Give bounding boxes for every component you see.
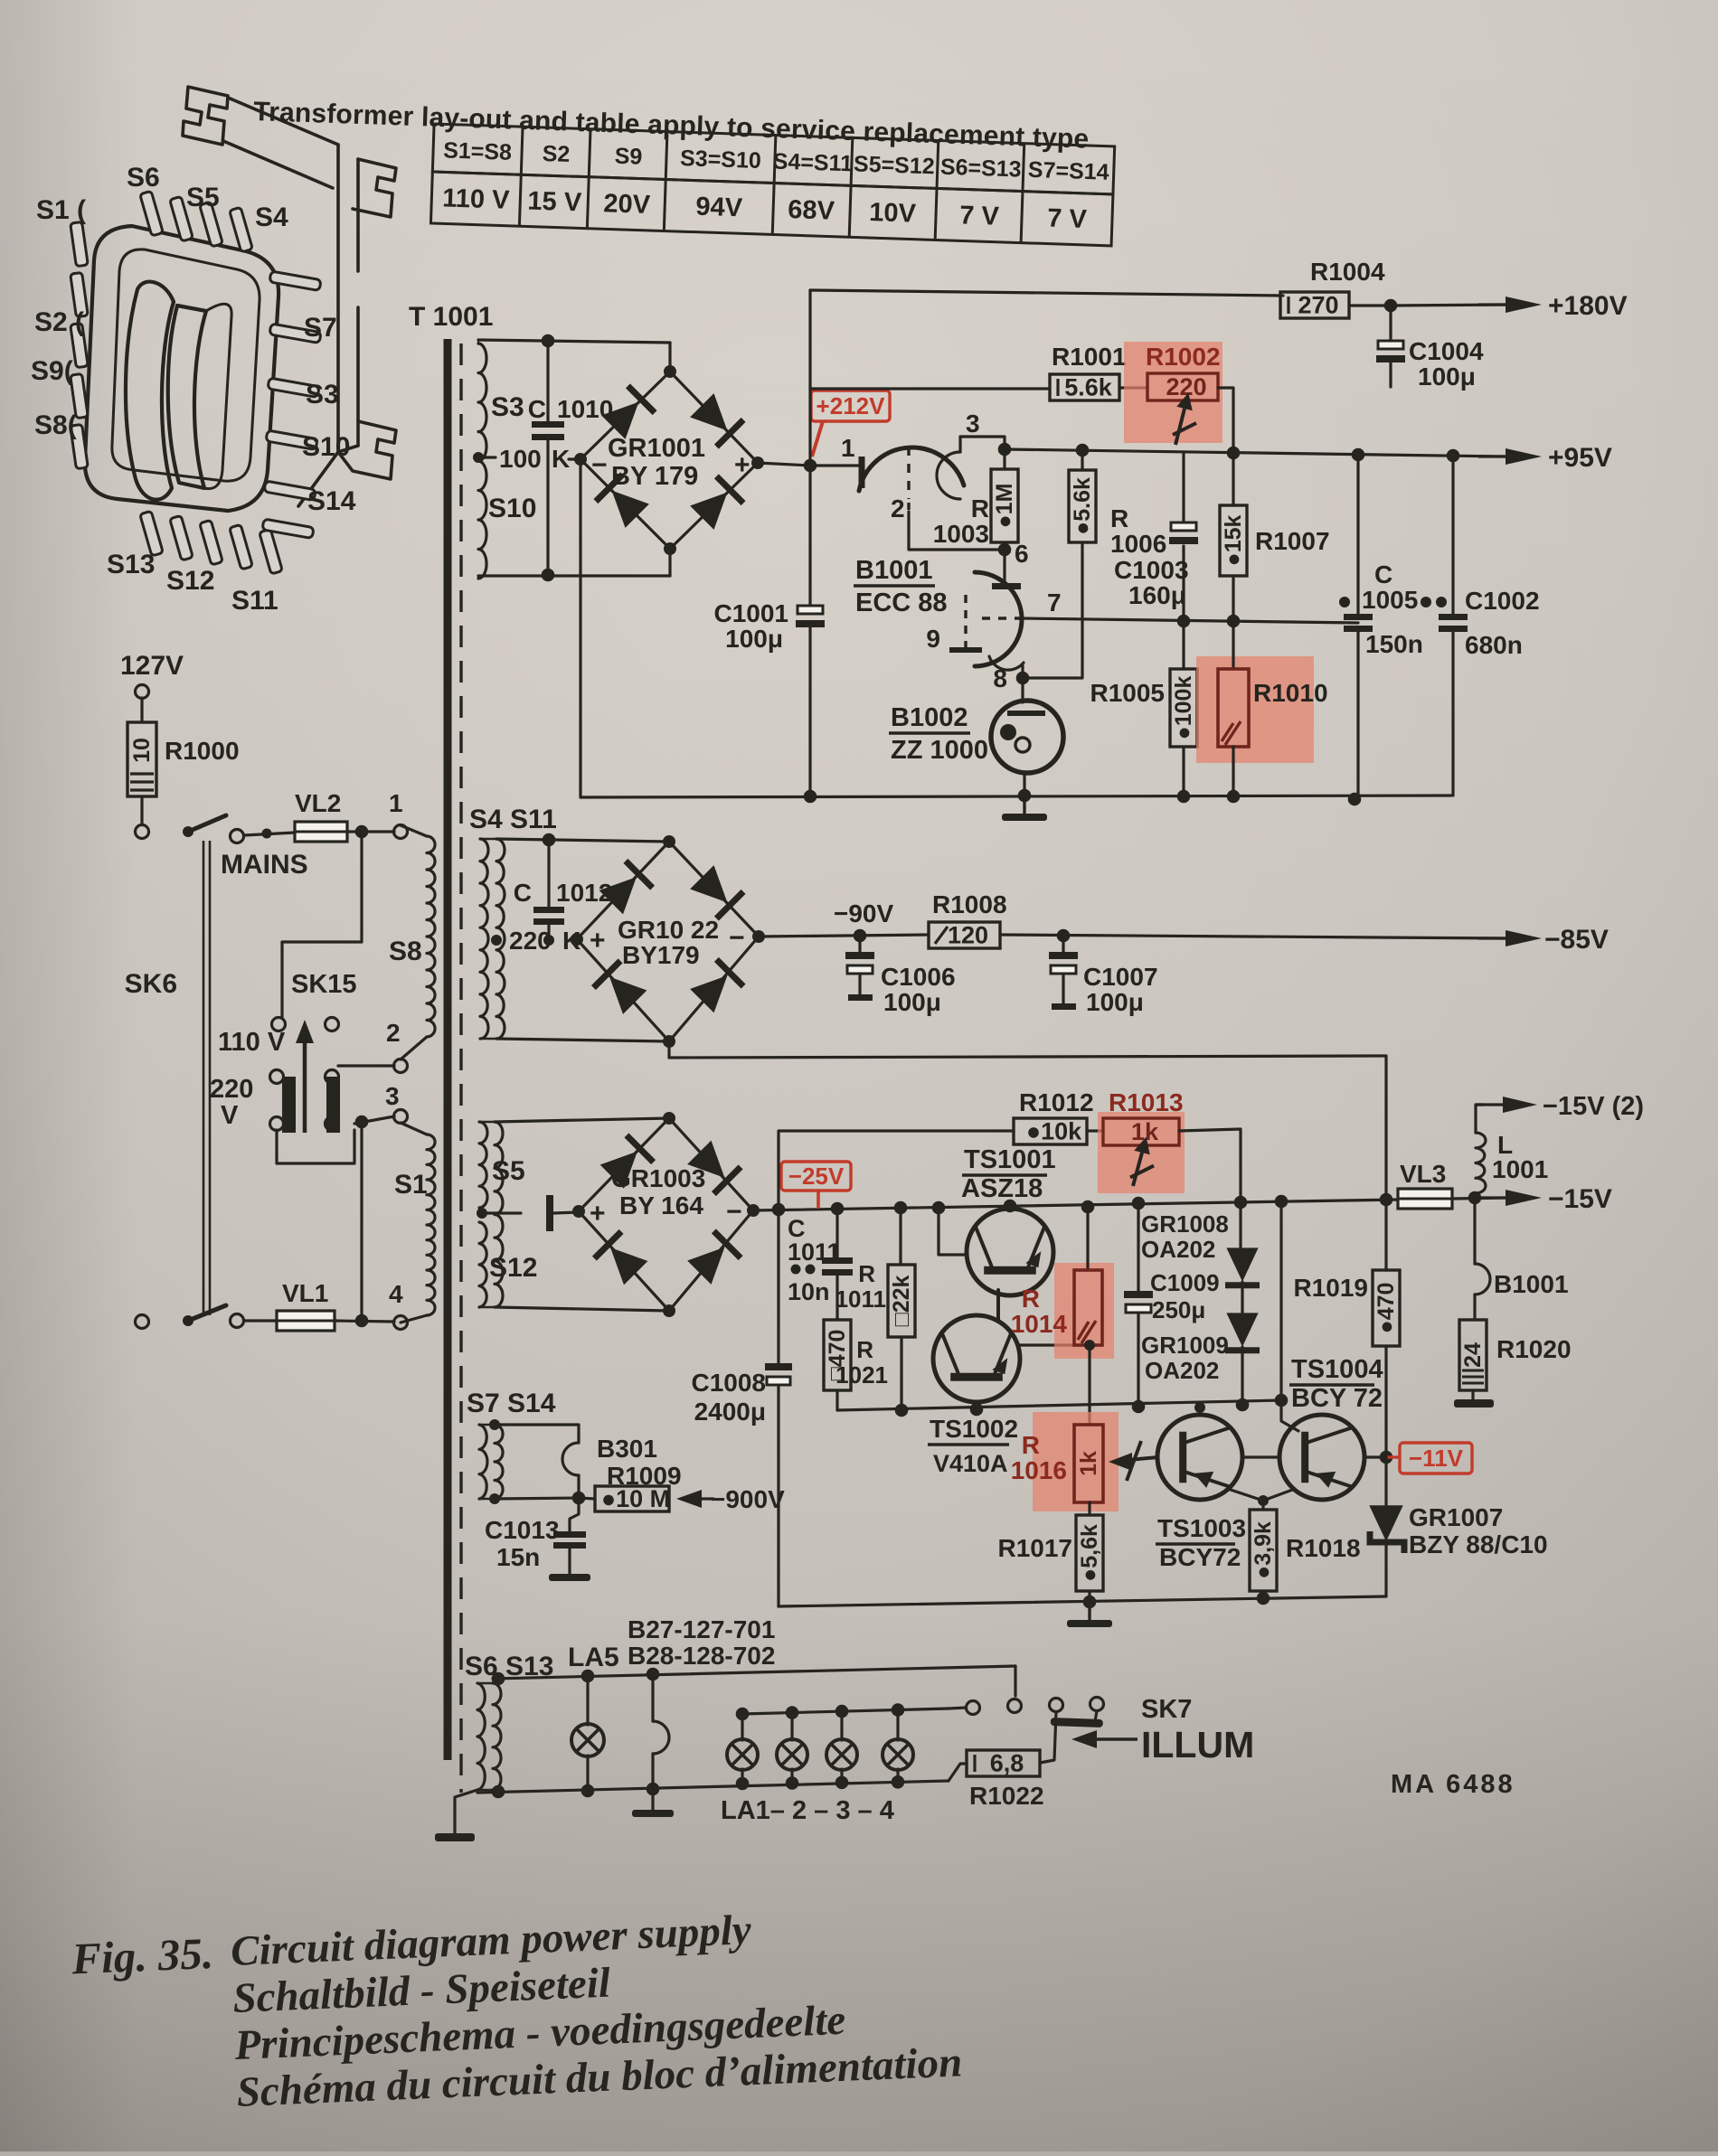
svg-text:7 V: 7 V (959, 201, 1000, 231)
wire TS1003 top (1198, 1408, 1201, 1415)
transformer pins (71, 191, 321, 574)
svg-text:94V: 94V (695, 193, 743, 223)
SK6 gang link (203, 841, 205, 1315)
svg-text:S7: S7 (304, 313, 337, 343)
svg-text:680n: 680n (1465, 631, 1523, 659)
junction pin 8 (1016, 672, 1030, 685)
lamp rail top (493, 1666, 1015, 1679)
ground below B1002 (1023, 796, 1025, 814)
junction R1014 top (1081, 1200, 1095, 1214)
arrow -15V(2) (1476, 1103, 1503, 1106)
capacitor C1010 (546, 341, 549, 421)
zener GR1007 BZY88/C10 (1384, 1457, 1387, 1508)
wire R1001-R1002 (1119, 386, 1147, 389)
wire cathode pin 3 (960, 437, 1005, 452)
svg-text:GR1003: GR1003 (611, 1164, 705, 1192)
transformer core line (444, 339, 452, 1760)
wire R1014 to R1016 (1088, 1345, 1090, 1425)
arrow +180V (1478, 303, 1506, 306)
svg-text:S3=S10: S3=S10 (680, 146, 762, 174)
junction x861 rail (772, 1203, 786, 1217)
terminal mains top (136, 825, 149, 839)
svg-text:R1017: R1017 (997, 1534, 1072, 1562)
connector B27 bump (651, 1674, 654, 1721)
red pad R1010 (1196, 656, 1314, 763)
wire top +180V rail (810, 290, 1283, 296)
transistor TS1004 (1279, 1415, 1364, 1500)
valve B1001 triode a grid (907, 447, 910, 499)
resistor R1007 (1232, 453, 1234, 505)
arrow -85V (1478, 937, 1506, 939)
wire R1004 to junction (1349, 304, 1391, 306)
ground lamp winding (455, 1790, 477, 1833)
wire top rail of winding block (478, 340, 670, 343)
winding S11 (496, 839, 505, 1039)
valve B1001 triode b cathode (989, 656, 1024, 670)
junction C1009 bottom (1132, 1400, 1146, 1414)
svg-text:S3: S3 (491, 392, 524, 422)
winding tap to connector (477, 1208, 487, 1219)
wire pin 7 row (1022, 618, 1358, 623)
capacitor C1004 (1389, 306, 1392, 341)
svg-text:OA202: OA202 (1145, 1357, 1219, 1384)
svg-text:ZZ 1000: ZZ 1000 (891, 736, 988, 765)
SK7 blade (1051, 1718, 1103, 1728)
connector B301 (562, 1443, 579, 1475)
wire cathode to pin 8 (1021, 665, 1024, 702)
red label -25V (781, 1162, 851, 1191)
svg-text:BZY 88/C10: BZY 88/C10 (1409, 1530, 1548, 1558)
svg-text:R1007: R1007 (1255, 527, 1330, 555)
junction TS1004 mid rail (1275, 1394, 1288, 1408)
wire R1003 to pin6 (1003, 542, 1005, 583)
svg-text:1021: 1021 (835, 1361, 888, 1389)
wire VL1 to pin4 (335, 1321, 394, 1322)
wire bridge output to +212V node (758, 463, 810, 466)
svg-text:S10: S10 (488, 494, 536, 523)
wire to R1009 (579, 1498, 595, 1499)
red pad R1002 (1124, 342, 1222, 443)
svg-text:+: + (590, 926, 606, 956)
svg-text:R1001: R1001 (1052, 343, 1127, 371)
wire S5S12 top to bridge (495, 1118, 669, 1122)
SK7 ILLUM arrow (1071, 1730, 1097, 1748)
svg-text:−15V: −15V (1548, 1184, 1612, 1214)
svg-text:R1008: R1008 (932, 890, 1007, 918)
bottom rail of regulator (779, 1596, 1386, 1606)
diode GR1008 (1239, 1202, 1241, 1247)
junction LA2 top (786, 1706, 799, 1719)
svg-text:R1013: R1013 (1109, 1088, 1184, 1116)
winding S1 (401, 1123, 427, 1134)
terminal mains bottom (136, 1315, 149, 1329)
wire S7S14 top to B301 (495, 1425, 579, 1443)
capacitor C1001 (808, 466, 811, 611)
svg-text:R: R (1022, 1431, 1040, 1459)
svg-text:VL2: VL2 (295, 789, 341, 817)
svg-text:S13: S13 (107, 550, 155, 579)
wire GR1001 minus corner down (579, 459, 581, 797)
wire L1001 top (1476, 1105, 1483, 1133)
choke L1001 (1476, 1133, 1486, 1193)
junction pin 6 (998, 543, 1012, 557)
svg-text:1014: 1014 (1011, 1310, 1068, 1338)
wire selector to pin3 (354, 1116, 394, 1124)
svg-text:S6=S13: S6=S13 (940, 155, 1023, 183)
svg-text:TS1001: TS1001 (964, 1145, 1056, 1174)
svg-text:1011: 1011 (788, 1238, 841, 1266)
svg-text:ILLUM: ILLUM (1141, 1724, 1254, 1765)
valve B1001 triode a anode (859, 457, 865, 488)
mid rail TS1002 emitter (837, 1400, 1281, 1410)
svg-text:TS1002: TS1002 (930, 1415, 1018, 1443)
wire TS1004 to -11V node (1364, 1455, 1386, 1458)
capacitor C1007 (1062, 936, 1064, 956)
svg-text:−85V: −85V (1544, 925, 1609, 955)
terminal pin 1 (394, 825, 408, 839)
winding tap 220K (491, 935, 502, 946)
winding S8 (401, 825, 427, 836)
svg-text:●5.6k: ●5.6k (1070, 477, 1095, 535)
winding tap 100K (473, 452, 484, 463)
svg-text:1001: 1001 (1492, 1155, 1548, 1183)
arrow -15V (1478, 1196, 1506, 1199)
svg-text:K: K (552, 445, 570, 473)
svg-text:●3,9k: ●3,9k (1251, 1521, 1276, 1579)
wire S4S11 top rail (496, 839, 669, 842)
R1020 ground (1471, 1390, 1474, 1399)
junction S6S13 bottom (492, 1785, 505, 1799)
svg-text:ECC 88: ECC 88 (855, 588, 948, 617)
svg-text:+95V: +95V (1548, 443, 1612, 473)
svg-text:R1012: R1012 (1019, 1088, 1094, 1116)
svg-text:BY179: BY179 (622, 941, 700, 969)
svg-text:S10: S10 (302, 432, 350, 462)
junction C1007 top (1057, 929, 1071, 943)
ground lamp rail (651, 1789, 654, 1810)
capacitor C1005 (1356, 455, 1359, 614)
wire pin1 node to SK15 (282, 832, 362, 1018)
terminal pin 4 (394, 1316, 408, 1330)
junction C1012 bottom (543, 935, 554, 946)
svg-text:V410A: V410A (933, 1450, 1008, 1477)
svg-text:S2 (: S2 ( (34, 307, 84, 337)
transformer lamination plate (85, 226, 278, 511)
dot marker C1005 (1339, 597, 1350, 607)
svg-text:S12: S12 (489, 1253, 537, 1283)
svg-text:C: C (528, 395, 546, 423)
svg-text:B1002: B1002 (891, 703, 968, 732)
winding S6 (477, 1683, 485, 1790)
svg-text:S1: S1 (394, 1170, 428, 1200)
svg-text:10: 10 (129, 738, 155, 763)
junction pin1 node (355, 825, 369, 839)
wire R1002 right lead down (1218, 388, 1233, 453)
svg-text:C1009: C1009 (1150, 1269, 1220, 1296)
lamp LA4 (883, 1739, 913, 1770)
svg-text:SK15: SK15 (291, 970, 357, 999)
fuse VL1 (244, 1319, 277, 1322)
svg-text:C1001: C1001 (713, 599, 788, 627)
dot marker C1011 a (791, 1265, 801, 1275)
svg-text:BCY72: BCY72 (1159, 1543, 1241, 1571)
wire rail to R1022 (949, 1764, 967, 1781)
svg-text:S9: S9 (614, 144, 643, 170)
feedback rail R1012 R1013 (779, 1131, 1014, 1210)
svg-text:110 V: 110 V (218, 1028, 286, 1057)
junction LA3 top (835, 1705, 849, 1718)
wire R1022 to SK7 (1040, 1712, 1056, 1763)
svg-text:−: − (591, 450, 608, 480)
winding bottom rail (477, 576, 479, 579)
svg-text:6,8: 6,8 (990, 1750, 1024, 1777)
wire S7S14 bottom to node (495, 1498, 579, 1499)
terminal 127V (136, 685, 149, 699)
winding S13 (493, 1683, 501, 1790)
svg-text:−25V: −25V (788, 1163, 845, 1190)
resistor R1019 (1384, 1200, 1387, 1270)
svg-text:−15V (2): −15V (2) (1543, 1092, 1644, 1121)
wire bridge bottom stub (668, 549, 671, 576)
svg-text:1k: 1k (1076, 1451, 1101, 1476)
junction R1014 bottom (1084, 1340, 1095, 1351)
junction R1011 bottom (895, 1404, 909, 1417)
wire SK15 top to pin2 (338, 1064, 394, 1067)
svg-text:1: 1 (389, 789, 403, 817)
winding S3/S10 (478, 344, 486, 579)
svg-text:−90V: −90V (834, 899, 893, 927)
svg-text:24: 24 (1460, 1342, 1486, 1368)
svg-text:100μ: 100μ (883, 988, 941, 1016)
wire R1012-R1013 (1087, 1129, 1103, 1132)
svg-text:●10 M: ●10 M (601, 1485, 670, 1512)
svg-text:BY 179: BY 179 (611, 462, 698, 491)
svg-text:68V: 68V (788, 195, 835, 226)
svg-text:R1019: R1019 (1293, 1274, 1368, 1302)
winding S5 (479, 1122, 487, 1208)
capacitor C1013 (570, 1498, 579, 1531)
svg-text:B28-128-702: B28-128-702 (628, 1642, 775, 1670)
svg-text:R: R (856, 1336, 873, 1363)
svg-text:20V: 20V (603, 189, 651, 220)
wire -25V rail (753, 1200, 1398, 1210)
bottom rail of valve block (581, 796, 1451, 797)
svg-text:1006: 1006 (1110, 530, 1166, 558)
rheostat R1014 (1086, 1207, 1089, 1270)
junction LA1 top (736, 1708, 750, 1721)
junction R1009 node (572, 1492, 586, 1505)
wire to +180V arrow (1391, 305, 1506, 306)
wire S4S11 bottom rail (496, 1039, 669, 1041)
svg-text:10n: 10n (788, 1278, 830, 1305)
svg-text:C1006: C1006 (881, 963, 956, 991)
svg-text:□22k: □22k (889, 1275, 914, 1326)
capacitor C1011 and R1021 chain (835, 1209, 838, 1257)
capacitor C1003 (1171, 523, 1196, 531)
dot marker C1002 b (1436, 597, 1447, 607)
svg-text:100μ: 100μ (725, 625, 783, 653)
junction +212V node (804, 459, 817, 473)
capacitor C1012 (547, 840, 550, 907)
valve B1001 triode b envelope (975, 572, 1022, 666)
junction LA2 bottom (786, 1776, 799, 1790)
junction C1006 top (854, 929, 867, 943)
svg-text:S5: S5 (186, 183, 220, 212)
svg-text:BCY 72: BCY 72 (1291, 1384, 1383, 1413)
svg-text:+180V: +180V (1548, 291, 1628, 321)
table: service replacement voltages (430, 124, 1114, 246)
svg-text:S14: S14 (307, 486, 356, 516)
svg-text:100: 100 (499, 445, 542, 473)
junction TS1003 top (1194, 1402, 1205, 1413)
svg-text:S3: S3 (306, 380, 339, 410)
svg-text:1011: 1011 (835, 1285, 886, 1313)
svg-text:C1002: C1002 (1465, 587, 1540, 615)
red pad R1013 (1098, 1112, 1185, 1193)
terminal pin 3 (394, 1110, 408, 1124)
winding S5S12 coil right (495, 1122, 503, 1307)
selector arrow (303, 1031, 307, 1133)
capacitor C1006 (858, 936, 861, 956)
svg-text:MAINS: MAINS (221, 850, 308, 880)
svg-text:+212V: +212V (817, 392, 886, 419)
svg-text:GR10 22: GR10 22 (618, 916, 719, 944)
svg-text:VL3: VL3 (1400, 1160, 1446, 1188)
svg-text:C1013: C1013 (485, 1516, 560, 1544)
wire stub to bridge top (668, 343, 671, 372)
junction C1010 bottom (542, 569, 555, 582)
svg-text:110 V: 110 V (442, 184, 511, 214)
svg-text:ASZ18: ASZ18 (961, 1174, 1043, 1203)
terminal pin 2 (394, 1059, 408, 1073)
svg-text:C1008: C1008 (691, 1369, 766, 1397)
rheostat R1010 (1232, 621, 1234, 669)
svg-text:1003: 1003 (933, 520, 989, 548)
winding S4 (480, 839, 488, 1039)
junction C1005 bottom rail (1348, 793, 1362, 806)
junction R1007 bottom (1227, 615, 1241, 628)
svg-text:S8: S8 (389, 937, 422, 966)
svg-text:R1004: R1004 (1310, 258, 1385, 286)
svg-text:S12: S12 (166, 566, 214, 596)
junction VL1 pin3 (355, 1314, 369, 1328)
svg-text:15n: 15n (496, 1543, 540, 1571)
svg-text:C1007: C1007 (1083, 963, 1158, 991)
junction GR1009 bottom (1236, 1398, 1250, 1412)
arrow -900V (676, 1490, 702, 1508)
svg-text:1005: 1005 (1362, 586, 1418, 614)
svg-text:3: 3 (385, 1082, 400, 1110)
junction LA4 top (892, 1703, 905, 1717)
svg-text:S7 S14: S7 S14 (467, 1389, 556, 1418)
svg-text:6: 6 (1015, 540, 1029, 568)
resistor R1005 (1182, 621, 1185, 669)
svg-text:S1 (: S1 ( (36, 195, 86, 225)
lamp LA3 (826, 1739, 857, 1770)
svg-text:S8(: S8( (34, 410, 77, 440)
junction B1002 bottom (1018, 789, 1032, 803)
resistor R1018 (1250, 1510, 1277, 1591)
svg-text:V: V (221, 1101, 239, 1130)
wire VL2 to pin1 (347, 830, 394, 833)
svg-text:R1022: R1022 (969, 1782, 1044, 1810)
wire R1013 to rail (1179, 1129, 1241, 1202)
svg-text:R: R (1022, 1285, 1040, 1313)
svg-text:Fig. 35.: Fig. 35. (70, 1928, 214, 1984)
svg-text:S2: S2 (542, 141, 571, 167)
wire anode lead pin1 (810, 464, 860, 466)
wire subrail to SK7 (949, 1708, 966, 1709)
svg-text:●10k: ●10k (1026, 1118, 1082, 1145)
lamp LA5 (586, 1676, 589, 1725)
wire to VL2 (244, 833, 295, 835)
junction R1019 top (1380, 1193, 1393, 1207)
wire wiper down to C1003 (1182, 453, 1185, 528)
wire B1002 to bottom rail (1023, 773, 1025, 796)
svg-text:VL1: VL1 (282, 1279, 328, 1307)
svg-text:−11V: −11V (1409, 1445, 1464, 1472)
svg-text:3: 3 (966, 410, 980, 438)
svg-text:1: 1 (841, 434, 855, 462)
svg-text:8: 8 (993, 664, 1007, 692)
svg-text:−900V: −900V (711, 1485, 785, 1513)
bridge rectifier GR1001 BY179 (581, 372, 758, 549)
junction C1003 bottom (1177, 615, 1191, 628)
svg-text:SK7: SK7 (1141, 1695, 1192, 1724)
voltage selector 110/220 (282, 1077, 296, 1133)
svg-text:S9(: S9( (31, 356, 73, 386)
valve B1001 triode a envelope (859, 447, 964, 491)
transformer core dashed line (459, 344, 462, 1793)
junction GR1008 top (1234, 1196, 1248, 1210)
svg-text:C1003: C1003 (1114, 556, 1189, 584)
diode GR1009 (1241, 1282, 1243, 1313)
svg-text:R: R (1110, 504, 1128, 532)
junction R1011 top (894, 1201, 908, 1215)
svg-text:S5=S12: S5=S12 (854, 151, 936, 179)
svg-text:127V: 127V (120, 651, 184, 681)
switch SK7 contacts (967, 1701, 980, 1715)
svg-text:TS1004: TS1004 (1291, 1355, 1383, 1384)
svg-text:OA202: OA202 (1141, 1236, 1215, 1263)
junction C1009 top (1132, 1197, 1146, 1210)
svg-text:S1=S8: S1=S8 (443, 137, 513, 165)
junction L1001 (1468, 1191, 1482, 1205)
junction C1012 top (543, 833, 556, 847)
svg-text:C: C (1374, 560, 1392, 588)
svg-text:R1020: R1020 (1496, 1335, 1572, 1363)
svg-text:MA 6488: MA 6488 (1391, 1770, 1515, 1799)
svg-text:B1001: B1001 (855, 556, 932, 585)
transistor TS1002 (933, 1315, 1020, 1402)
resistor R1000 (140, 698, 143, 722)
wire R1001 row from +212V node (810, 387, 1050, 390)
caption Fig. 35 (70, 1897, 963, 2123)
wire TS1004 top (1281, 1201, 1298, 1431)
junction R1010 bottom (1227, 790, 1241, 804)
svg-text:2: 2 (891, 494, 905, 523)
wire S1 to pin4 (401, 1315, 427, 1323)
wire x861 vertical with C1008 (777, 1210, 779, 1366)
svg-text:R1000: R1000 (165, 737, 240, 765)
ground regulator (1088, 1602, 1090, 1620)
svg-text:150n: 150n (1365, 630, 1423, 658)
red pad R1014 (1054, 1263, 1114, 1359)
svg-text:100μ: 100μ (1418, 362, 1476, 391)
wire R1006 down to cathode node (1029, 542, 1082, 678)
wire TS1003 emitter to R1018 (1228, 1489, 1263, 1510)
lamp LA1 (727, 1739, 758, 1770)
